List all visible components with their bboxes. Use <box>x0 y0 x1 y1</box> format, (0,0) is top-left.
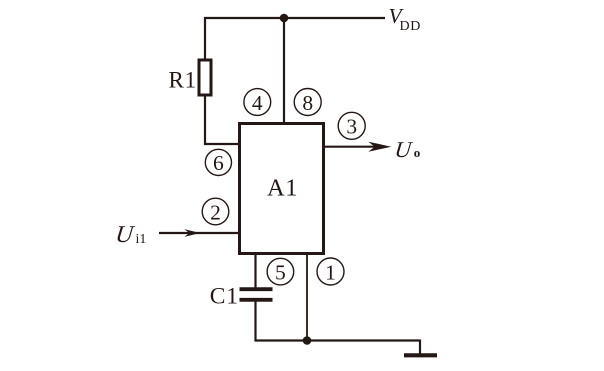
resistor R1 <box>199 60 211 95</box>
node junction dot at VDD rail <box>280 14 289 23</box>
IC A1 box <box>240 124 324 254</box>
wire pin 1 down <box>306 254 308 341</box>
capacitor C1 <box>240 289 273 300</box>
arrow output <box>368 142 391 152</box>
pin 1 <box>317 258 344 285</box>
pin 5 <box>267 258 294 285</box>
wire R1 bottom to pin 6 <box>205 96 239 144</box>
wire pin8 to VDD rail <box>283 18 285 122</box>
node junction dot at ground rail <box>303 336 312 345</box>
svg-text:i1: i1 <box>136 232 147 247</box>
svg-text:3: 3 <box>346 115 357 139</box>
svg-text:1: 1 <box>325 260 336 284</box>
svg-text:2: 2 <box>210 200 221 224</box>
svg-text:DD: DD <box>400 19 421 34</box>
label Ui1 <box>114 222 146 248</box>
svg-text:8: 8 <box>302 91 313 115</box>
wire C1 bottom to ground rail <box>256 301 421 342</box>
svg-text:4: 4 <box>252 91 263 115</box>
pin 2 <box>202 198 229 225</box>
ground <box>404 353 437 357</box>
pin 6 <box>205 149 231 175</box>
wire ground stub <box>419 340 421 354</box>
pin 8 <box>294 89 321 116</box>
svg-text:U: U <box>114 222 136 248</box>
wire output pin 3 <box>325 146 376 148</box>
svg-text:A1: A1 <box>267 175 298 202</box>
svg-text:6: 6 <box>213 151 224 175</box>
wire pin 5 stub <box>254 254 256 288</box>
pin 4 <box>244 89 271 116</box>
wire input pin 2 <box>159 232 239 234</box>
svg-text:o: o <box>414 145 421 160</box>
label VDD <box>389 4 421 34</box>
wire VDD top rail <box>205 18 385 59</box>
svg-text:C1: C1 <box>210 283 239 309</box>
svg-text:5: 5 <box>275 260 286 284</box>
svg-text:U: U <box>393 137 414 162</box>
arrow input <box>184 229 200 237</box>
svg-text:R1: R1 <box>169 68 197 93</box>
label Uo <box>393 137 420 162</box>
pin 3 <box>338 112 365 139</box>
